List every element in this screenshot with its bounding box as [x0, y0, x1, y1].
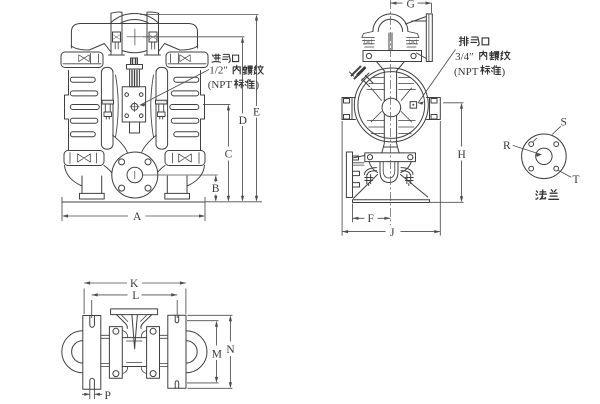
svg-text:M: M	[212, 349, 222, 361]
svg-text:): )	[256, 79, 260, 91]
svg-text:H: H	[458, 149, 466, 161]
svg-text:B: B	[212, 183, 220, 195]
svg-text:L: L	[132, 290, 139, 302]
svg-text:J: J	[390, 227, 395, 239]
svg-text:E: E	[253, 107, 260, 119]
svg-text:D: D	[239, 115, 247, 127]
svg-text:R: R	[503, 140, 511, 152]
svg-text:1/2″: 1/2″	[209, 65, 228, 77]
svg-text:3/4″: 3/4″	[455, 51, 474, 63]
svg-text:F: F	[368, 213, 374, 225]
svg-text:A: A	[133, 211, 142, 223]
svg-text:G: G	[407, 0, 415, 11]
svg-text:C: C	[225, 149, 233, 161]
svg-text:): )	[502, 66, 506, 78]
svg-text:S: S	[561, 117, 567, 129]
svg-text:(NPT: (NPT	[208, 79, 233, 91]
svg-text:K: K	[130, 278, 139, 290]
svg-text:P: P	[105, 390, 111, 402]
svg-text:(NPT: (NPT	[454, 66, 479, 78]
svg-text:N: N	[226, 344, 235, 356]
svg-text:T: T	[573, 174, 580, 186]
